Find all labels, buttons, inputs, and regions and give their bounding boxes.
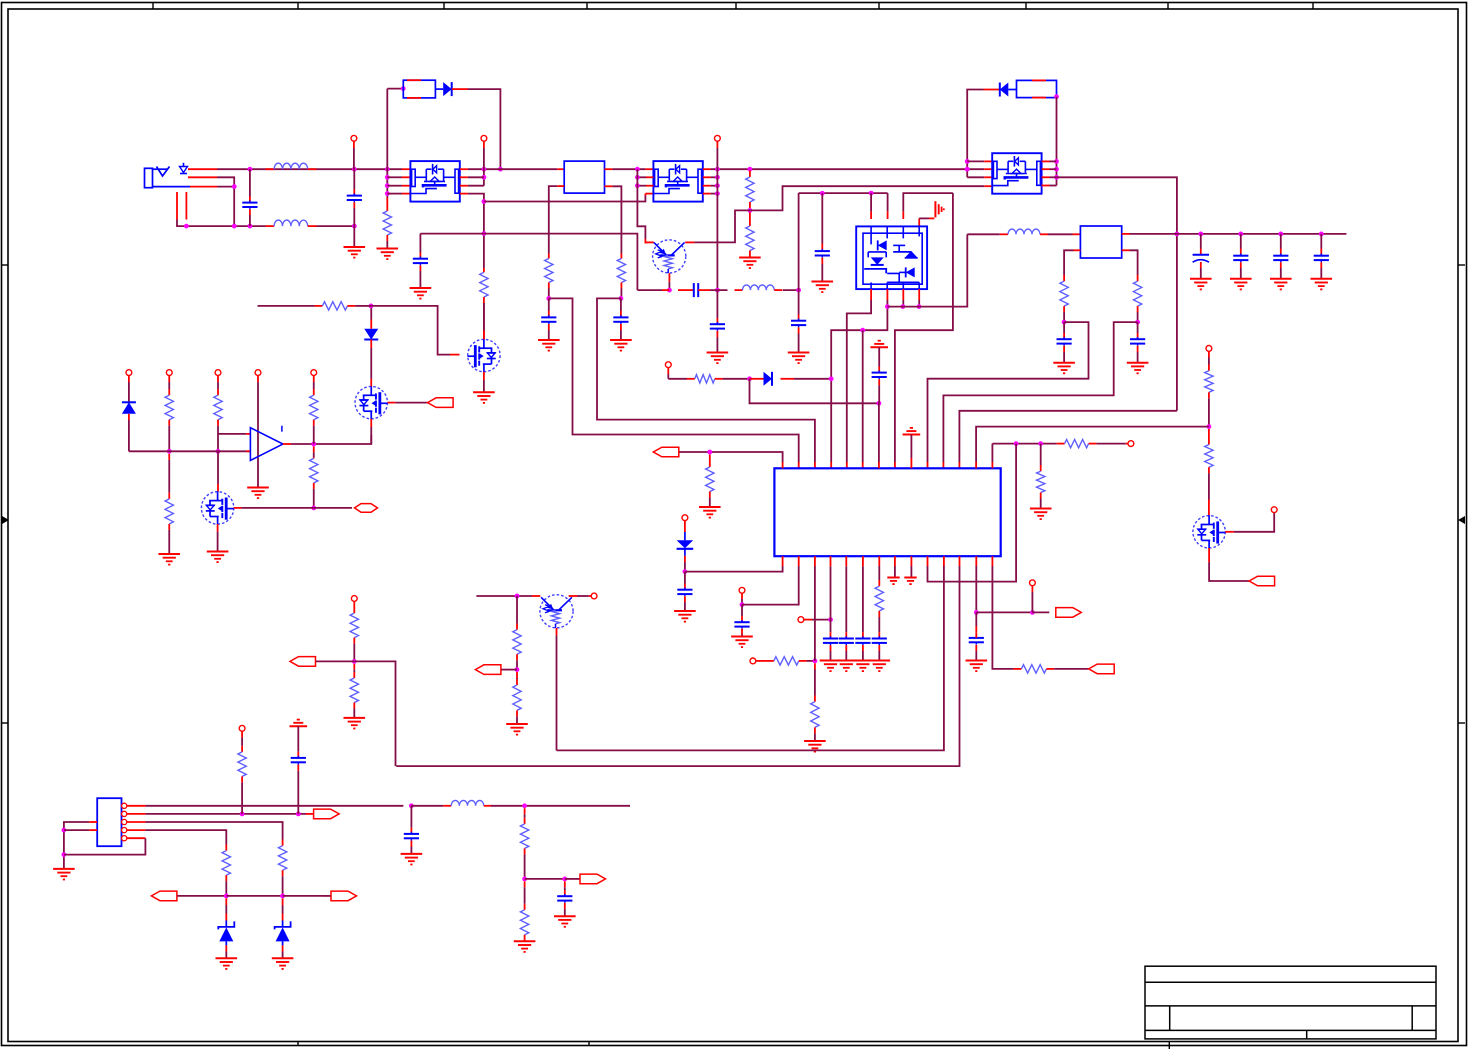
wire rail1 U3-U5 bbox=[711, 168, 985, 170]
wire pair p4 up bbox=[919, 218, 934, 226]
M3 bottom stub bbox=[483, 372, 485, 380]
R17 lower lead bbox=[878, 611, 880, 639]
resistor R27 bbox=[513, 630, 521, 655]
junction F3 right bbox=[1054, 94, 1059, 99]
diode D5 bbox=[364, 329, 378, 340]
R32 upper lead bbox=[524, 808, 526, 824]
junction y878 x564 bbox=[562, 877, 567, 882]
junction sense col y201 bbox=[482, 199, 487, 204]
J2 right pin circles bbox=[122, 803, 146, 841]
port PT12 bbox=[580, 874, 606, 884]
zener Z1 bbox=[218, 921, 234, 946]
pin P20 bbox=[239, 725, 245, 731]
ground GND-C26 bbox=[554, 916, 576, 927]
wire out rail y177 bbox=[1057, 177, 1177, 410]
power flag PW1 bbox=[870, 341, 888, 348]
wire D1 to rail bbox=[468, 89, 501, 169]
junction rail3 x717 bbox=[715, 183, 720, 188]
wire opamp out bbox=[291, 435, 371, 444]
C10 lower lead bbox=[1200, 262, 1202, 279]
R13 right stub bbox=[1089, 443, 1097, 445]
junction R21 bus bbox=[216, 449, 221, 454]
wire C25 lead bbox=[410, 806, 412, 834]
wire C13 lead bbox=[1320, 234, 1322, 256]
ground GND-Z1 bbox=[216, 958, 238, 969]
ground GND-C23 bbox=[966, 661, 988, 672]
pin P13 bbox=[126, 370, 132, 376]
junction x1056 rail2 bbox=[1054, 167, 1059, 172]
IC b11 stub bbox=[943, 556, 945, 566]
wire Q3 to P19 bbox=[577, 595, 589, 597]
junction P8 col bbox=[683, 569, 688, 574]
R8 lower lead bbox=[1137, 306, 1139, 322]
C15 to gnd bbox=[1137, 346, 1139, 363]
wire C12 lead bbox=[1280, 234, 1282, 256]
resistor R14 bbox=[1037, 471, 1045, 492]
wire b2 net bbox=[742, 566, 799, 605]
junction col879 y403 bbox=[877, 401, 882, 406]
R14 lower lead bbox=[1040, 493, 1042, 509]
wire PT10 net bbox=[177, 895, 226, 897]
ground GND-b8 bbox=[887, 578, 899, 585]
C14 to gnd bbox=[1063, 346, 1065, 363]
pin P3 bbox=[715, 135, 721, 141]
ind L4 left stub bbox=[1000, 233, 1008, 235]
diode D3 bbox=[764, 372, 773, 386]
Z1 upper lead bbox=[225, 898, 227, 920]
junction jack col pin3 bbox=[232, 184, 237, 189]
wire J2 pin2 net bbox=[145, 813, 306, 815]
resistor R26 bbox=[350, 678, 358, 703]
wire to F1 box bbox=[387, 88, 403, 90]
wire C1 lower lead bbox=[249, 209, 251, 226]
wire P8 stub bbox=[684, 521, 686, 532]
ind L1 right stub bbox=[308, 168, 317, 170]
port PT11 bbox=[331, 891, 357, 901]
resistor R9 bbox=[706, 467, 714, 492]
wire C20 col bbox=[845, 556, 847, 638]
wire P1 down bbox=[353, 141, 355, 169]
U2 left pin rails bbox=[387, 177, 410, 193]
ground GND-C10 bbox=[1190, 279, 1212, 290]
wire pair gate rail bbox=[799, 192, 888, 194]
P20 stub bbox=[241, 731, 243, 752]
R33 lower lead bbox=[524, 935, 526, 941]
junction y306 p2 bbox=[885, 304, 890, 309]
ground GND-C7 bbox=[707, 353, 729, 364]
wire x1040 down bbox=[1040, 444, 1042, 472]
resistor R28 bbox=[513, 685, 521, 710]
resistor R2 lead bbox=[483, 268, 485, 272]
junction p1 x524 bbox=[522, 803, 527, 808]
inductor L4 bbox=[1008, 229, 1040, 234]
C5 to gnd bbox=[620, 324, 622, 340]
wire P20 mid bbox=[241, 737, 243, 745]
P2net port stub bbox=[306, 813, 315, 815]
dc-dc module U6 bbox=[1080, 226, 1121, 258]
wire U2A input col bbox=[386, 89, 388, 198]
wire y878 to PT12 bbox=[565, 878, 580, 880]
ground GND-C20 bbox=[836, 661, 858, 672]
ind L3 right stub bbox=[774, 289, 782, 291]
capacitor C17 bbox=[677, 588, 692, 597]
wire b9 stub bbox=[910, 556, 912, 577]
D1 leads bbox=[435, 88, 467, 90]
R22 lower lead bbox=[313, 420, 315, 444]
wire M1 top bbox=[370, 348, 372, 379]
capacitor C10 (polarized) bbox=[1193, 255, 1209, 263]
wire y443 net bbox=[992, 443, 1056, 445]
junction R3 C4 bbox=[546, 296, 551, 301]
D4 lower lead bbox=[128, 414, 130, 452]
fuse F1 box bbox=[403, 80, 435, 98]
R6 lower lead bbox=[749, 251, 751, 257]
junction y290 x798 bbox=[796, 288, 801, 293]
ground GND-C19 bbox=[820, 661, 842, 672]
wire Q2 to P7 bbox=[1234, 513, 1274, 532]
C20 to gnd bbox=[845, 645, 847, 660]
resistor R4 lead bbox=[620, 254, 622, 259]
wire y443 IC t14 bbox=[991, 444, 993, 469]
D2 left stub bbox=[984, 89, 1000, 91]
junction pair rail x871 bbox=[869, 191, 874, 196]
C4 to gnd bbox=[548, 324, 550, 340]
IC t8 stub bbox=[894, 462, 896, 468]
R19 lower lead bbox=[168, 420, 170, 452]
U3 left pin stubs bbox=[646, 177, 653, 185]
wire C11 lead bbox=[1240, 234, 1242, 256]
resistor R2 bbox=[480, 272, 488, 297]
border left center arrow bbox=[2, 516, 9, 524]
junction vout c2 bbox=[1238, 232, 1243, 237]
Z2 lower lead bbox=[282, 945, 284, 958]
pin P12 bbox=[1030, 580, 1036, 586]
port PT7 bbox=[290, 657, 316, 667]
R28 lower lead bbox=[516, 710, 518, 724]
capacitor C18 bbox=[734, 620, 749, 629]
R24 right stub bbox=[347, 305, 355, 307]
junction out-rail at pin col bbox=[482, 167, 487, 172]
ind L2 left stub bbox=[266, 225, 275, 227]
wire sense y201 bbox=[484, 201, 549, 203]
junction R8 C15 bbox=[1135, 320, 1140, 325]
U5 right stubs bbox=[1042, 161, 1050, 185]
junction y306 p4 bbox=[917, 304, 922, 309]
wire b11 net (Q3 emitter) bbox=[557, 566, 944, 750]
C24 lead bbox=[297, 765, 299, 814]
junction vout c3 bbox=[1278, 232, 1283, 237]
R29 lower lead bbox=[241, 776, 243, 814]
R2 lower lead bbox=[483, 297, 485, 339]
IC t2 stub bbox=[798, 462, 800, 468]
wire U2 pin2 rail bbox=[468, 176, 484, 178]
resistor R23 bbox=[310, 458, 318, 483]
junction p1 x411 bbox=[409, 803, 414, 808]
U2 right pin stubs bbox=[460, 169, 468, 193]
R26 lower lead bbox=[353, 703, 355, 718]
R28 upper lead bbox=[516, 672, 518, 685]
junction VIN rail at R-col bbox=[385, 167, 390, 172]
diode D6 bbox=[677, 532, 694, 556]
mosfet pair block U4 bbox=[856, 226, 927, 289]
ground GND-opamp bbox=[247, 488, 269, 499]
wire P3 col bbox=[716, 141, 718, 290]
wire P15 down bbox=[217, 382, 219, 395]
wire PW1 to C16 bbox=[878, 347, 880, 372]
R32 lower lead bbox=[524, 848, 526, 879]
R23 lower lead bbox=[313, 483, 315, 508]
mosfet M3 bbox=[468, 339, 501, 372]
wire x862 down bbox=[862, 330, 864, 468]
R27 lower lead bbox=[516, 654, 518, 669]
wire J2 pin5 loop bbox=[64, 838, 145, 854]
resistor R17 bbox=[875, 586, 883, 611]
connector J2 bbox=[97, 798, 121, 846]
P11 wire bbox=[804, 619, 831, 621]
rail1 stub U3 bbox=[645, 168, 653, 170]
wire z1-z2 bbox=[226, 895, 282, 897]
capacitor C20 bbox=[839, 636, 854, 645]
junction U3 col rail1 bbox=[635, 167, 640, 172]
R26 upper lead bbox=[353, 664, 355, 678]
wire L5 to col524 bbox=[491, 805, 630, 807]
junction x967 rail1b bbox=[965, 159, 970, 164]
IC b2 stub bbox=[798, 556, 800, 566]
C13 lower lead bbox=[1320, 262, 1322, 279]
inductor L3 bbox=[743, 285, 775, 290]
ind L3 left stub bbox=[735, 289, 743, 291]
junction y443 x1040 bbox=[1038, 441, 1043, 446]
R24 left stub bbox=[315, 305, 323, 307]
R4 lower lead bbox=[620, 283, 622, 299]
junction J2 gnd col2 bbox=[62, 852, 67, 857]
wire vout rail bbox=[1130, 233, 1347, 235]
port PT1 bbox=[653, 447, 679, 457]
capacitor C25 bbox=[404, 832, 419, 841]
wire net VIN top rail bbox=[217, 168, 402, 170]
IC t1 stub bbox=[782, 462, 784, 468]
junction col387 rail2 bbox=[385, 175, 390, 180]
R21 lower lead bbox=[217, 420, 219, 452]
M1 right stub bbox=[388, 402, 396, 404]
junction b13 col bbox=[974, 610, 979, 615]
capacitor C26 bbox=[557, 894, 572, 903]
wire y290 mid seg bbox=[710, 289, 728, 291]
resistor R5 bbox=[746, 177, 754, 202]
wire U6 rb bbox=[1130, 250, 1138, 275]
pair p3 stub bbox=[902, 211, 904, 219]
wire y306 net bbox=[887, 234, 967, 306]
junction rail1 x750 bbox=[748, 167, 753, 172]
ground GND-R33 bbox=[514, 941, 536, 952]
pin P8 bbox=[682, 515, 688, 521]
port PT8 bbox=[475, 665, 501, 675]
junction col831 D3 bbox=[829, 376, 834, 381]
wire z2 ext bbox=[323, 895, 331, 897]
junction at F1 left edge bbox=[401, 86, 406, 91]
border bottom tick marks bbox=[298, 1042, 1169, 1050]
DCDC left stub bbox=[1073, 233, 1081, 235]
P6 stub bbox=[1126, 443, 1128, 445]
resistor R24 bbox=[322, 302, 347, 310]
junction U3 col rail3 bbox=[635, 183, 640, 188]
wire U5 r2 bbox=[1050, 168, 1057, 170]
opamp - stub bbox=[246, 433, 250, 435]
port PT5 bbox=[428, 398, 454, 408]
U6 out stub bbox=[1122, 233, 1130, 235]
wire P17 down bbox=[313, 382, 315, 395]
wire C17 lead bbox=[684, 572, 686, 590]
L5 left stub bbox=[443, 805, 451, 807]
junction col524 y878 bbox=[522, 877, 527, 882]
resistor R8 lead bbox=[1137, 275, 1139, 281]
wire P14 down bbox=[168, 382, 170, 395]
wire C15 lead bbox=[1137, 322, 1139, 339]
capacitor C21 bbox=[855, 636, 870, 645]
resistor R6 bbox=[746, 226, 754, 251]
wire M2 gate bbox=[217, 451, 219, 491]
capacitor C8 bbox=[791, 319, 806, 328]
wire C3 top bbox=[419, 234, 421, 259]
IC t13 stub bbox=[975, 462, 977, 468]
ground GND-C21 bbox=[852, 661, 874, 672]
wire z2 to PT11 bbox=[283, 895, 323, 897]
wire x952 col bbox=[895, 193, 953, 462]
pin P9 bbox=[739, 587, 745, 593]
resistor R10 bbox=[695, 375, 715, 383]
L5 right stub bbox=[484, 805, 492, 807]
P15 stub bbox=[217, 376, 219, 383]
P16 stub bbox=[257, 376, 259, 383]
junction R27 net bbox=[515, 667, 520, 672]
wire R13 to P6 bbox=[1096, 443, 1125, 445]
resistor R19 bbox=[165, 395, 173, 420]
M1 top stub bbox=[370, 379, 372, 387]
transistor Q3 bbox=[540, 595, 573, 628]
port PT3 bbox=[1056, 608, 1082, 618]
wire R10 to D3 bbox=[723, 378, 750, 380]
ic U7 bbox=[774, 468, 1000, 556]
mosfet M2 bbox=[201, 491, 234, 524]
wire pair p3 up bbox=[903, 193, 953, 211]
capacitor C13 bbox=[1314, 254, 1329, 263]
junction vout c1 bbox=[1198, 232, 1203, 237]
pair b4 stub bbox=[918, 289, 920, 307]
ground GND-C8 bbox=[788, 353, 810, 364]
wire U2 out rail1 bbox=[468, 168, 557, 170]
R7 lower lead bbox=[1063, 306, 1065, 322]
capacitor C11 bbox=[1233, 254, 1248, 263]
ground GND-C4 bbox=[538, 340, 560, 351]
Q1 emitter bbox=[668, 273, 670, 290]
pin P4 bbox=[665, 362, 671, 368]
pair b3 stub bbox=[902, 289, 904, 307]
ground GND-C11 bbox=[1230, 279, 1252, 290]
resistor R3 lead bbox=[548, 254, 550, 259]
junction x967 rail2b bbox=[965, 167, 970, 172]
connector J1 DC jack bbox=[145, 163, 191, 188]
J2 left stubs bbox=[89, 822, 97, 830]
wire y290 left seg bbox=[637, 289, 662, 291]
junction x1056 rail3 bbox=[1054, 175, 1059, 180]
junction x1056 rail1 bbox=[1054, 159, 1059, 164]
R18 left stub bbox=[1014, 668, 1022, 670]
wire C1 upper lead bbox=[249, 169, 251, 202]
Q3 right stub bbox=[569, 595, 577, 597]
junction sense col y233 bbox=[482, 231, 487, 236]
wire rail3 U3 seg bbox=[711, 185, 718, 187]
wire R21 to opamp - bbox=[218, 433, 246, 435]
power flag PW3 bbox=[290, 720, 308, 727]
C8 to gnd bbox=[798, 327, 800, 352]
capacitor C4 bbox=[541, 315, 556, 324]
wire R18 to port bbox=[1054, 668, 1089, 670]
wire P9 col bbox=[741, 593, 743, 604]
wire PT8 to col bbox=[501, 669, 517, 671]
fuse F3 box bbox=[1008, 80, 1056, 97]
ground GND-C15 bbox=[1127, 363, 1149, 374]
ground GND-C13 bbox=[1311, 279, 1333, 290]
mosfet block U3 bbox=[653, 161, 702, 202]
wire L4 right bbox=[1048, 233, 1073, 235]
capacitor C7 bbox=[710, 322, 725, 331]
resistor R29 bbox=[238, 752, 246, 777]
wire M2 bottom bbox=[217, 532, 219, 551]
wire P4 down bbox=[668, 368, 687, 379]
wire C7 lead bbox=[716, 290, 718, 324]
mosfet block U5 bbox=[992, 153, 1041, 194]
C7 to gnd bbox=[716, 331, 718, 352]
pin P17 bbox=[311, 370, 317, 376]
junction R7 C14 bbox=[1062, 320, 1067, 325]
wire J2 left pins bbox=[64, 822, 89, 869]
C6 right stub bbox=[698, 289, 710, 291]
junction y330 x862 bbox=[860, 328, 865, 333]
resistor R1 bbox=[383, 211, 391, 235]
wire M3 top bbox=[483, 303, 485, 330]
D5 leads bbox=[370, 320, 372, 349]
R12 upper lead bbox=[1208, 429, 1210, 445]
wire PW3 to C24 bbox=[297, 726, 299, 758]
R20 lower lead bbox=[168, 524, 170, 554]
wire C2 lower lead bbox=[353, 202, 355, 226]
capacitor C6 bbox=[694, 283, 698, 297]
capacitor C9 bbox=[815, 249, 830, 258]
IC t10 stub bbox=[927, 462, 929, 468]
wire C9 lead bbox=[821, 193, 823, 251]
junction R4 C5 bbox=[619, 296, 624, 301]
junction VIN rail at C1 bbox=[248, 167, 253, 172]
resistor R33 bbox=[520, 910, 528, 935]
junction b3 col bbox=[813, 659, 818, 664]
wire to M3 gate bbox=[371, 306, 450, 355]
R11 lower lead bbox=[1208, 392, 1210, 426]
wire C8 lead bbox=[798, 290, 800, 321]
IC t12 stub bbox=[958, 462, 960, 468]
wire U2 pin3 rail bbox=[468, 185, 484, 187]
P17 stub bbox=[313, 376, 315, 383]
ind L2 right stub bbox=[308, 225, 317, 227]
wire C2 col to gnd bbox=[353, 226, 355, 247]
wire U3 col down bbox=[637, 169, 645, 239]
port PT4 bbox=[1089, 664, 1115, 674]
M3 left stub bbox=[450, 354, 460, 356]
junction R25 net bbox=[352, 659, 357, 664]
junction y306 p3 bbox=[901, 304, 906, 309]
wire y426 to IC bbox=[976, 427, 1209, 462]
C25 to gnd bbox=[410, 841, 412, 854]
diode D4 bbox=[122, 402, 136, 414]
